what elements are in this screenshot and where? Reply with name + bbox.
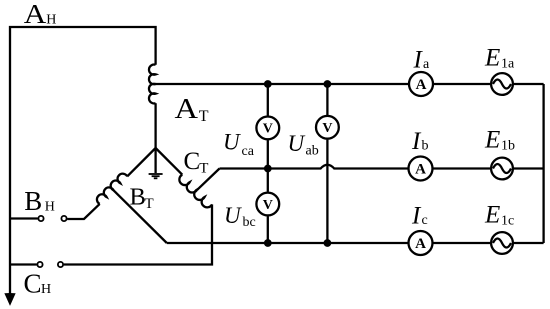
svg-text:I: I xyxy=(411,128,422,155)
junction row c / column 2 xyxy=(324,239,332,247)
wire: row c source to right bus xyxy=(513,242,543,244)
junction row b / column 1 xyxy=(264,165,272,173)
wire: C_H row from left bus to switch xyxy=(10,263,37,265)
svg-text:A: A xyxy=(24,0,47,29)
wire: row b tap slant from C_T coil xyxy=(197,169,219,190)
switch contact circle B_H left xyxy=(38,216,43,221)
node left-bus bottom arrow xyxy=(5,294,15,305)
svg-text:B: B xyxy=(130,183,146,210)
source E_1a circle xyxy=(491,73,513,95)
svg-text:A: A xyxy=(415,162,426,178)
svg-text:U: U xyxy=(223,130,241,155)
svg-text:C: C xyxy=(184,148,201,175)
svg-text:a: a xyxy=(423,57,430,72)
junction row c / column 1 xyxy=(264,239,272,247)
svg-text:H: H xyxy=(41,282,51,297)
voltmeter V (U_ca) xyxy=(256,117,279,140)
switch contact circle C_H right xyxy=(58,262,63,267)
wire: right bus vertical xyxy=(542,84,544,243)
svg-text:H: H xyxy=(46,13,56,28)
junction row a / column 2 xyxy=(324,80,332,88)
source E_1c sine xyxy=(493,239,511,248)
source E_1a sine xyxy=(493,80,511,89)
wire: voltmeter column 2 upper (row a to V U_ab) xyxy=(326,84,328,115)
voltmeter V (U_ab) xyxy=(316,116,339,139)
svg-text:U: U xyxy=(288,131,306,156)
ammeter A (I_a) xyxy=(409,72,433,96)
wire: row b with hop over column 2 xyxy=(220,165,410,169)
svg-text:I: I xyxy=(411,203,422,230)
svg-text:T: T xyxy=(145,196,154,212)
svg-text:ab: ab xyxy=(306,144,319,159)
svg-text:bc: bc xyxy=(243,215,256,230)
ammeter A (I_b) xyxy=(409,157,433,181)
svg-text:c: c xyxy=(422,213,428,228)
wire: column 1 lower (U_bc meter to row c) xyxy=(267,216,269,243)
wire: A_T lower lead to star point xyxy=(154,103,156,148)
svg-text:V: V xyxy=(322,121,332,136)
source E_1b sine xyxy=(493,164,511,173)
wire: column 1 between U_ca meter and U_bc meter xyxy=(267,140,269,192)
svg-text:H: H xyxy=(45,200,55,215)
transformer winding B_T (coil, 4 bumps) xyxy=(97,174,127,204)
wire: row a from A_T tap to ammeter xyxy=(156,83,410,85)
wire: voltmeter column 1 upper (row a to V U_ca) xyxy=(267,84,269,116)
switch contact circle C_H left xyxy=(37,262,42,267)
svg-text:E: E xyxy=(484,127,500,154)
svg-text:b: b xyxy=(422,139,429,154)
svg-text:I: I xyxy=(413,47,424,74)
wire: star point to C_T upper lead xyxy=(156,148,183,175)
svg-text:A: A xyxy=(415,236,426,252)
wire: B_H row from left bus to switch xyxy=(10,217,38,219)
svg-text:E: E xyxy=(484,45,500,72)
svg-text:1b: 1b xyxy=(501,139,515,154)
svg-text:A: A xyxy=(416,77,427,93)
wire: row c horizontal xyxy=(167,242,409,244)
svg-text:1a: 1a xyxy=(501,57,515,72)
ground at star point xyxy=(149,148,163,178)
junction row a / column 1 xyxy=(264,80,272,88)
svg-text:B: B xyxy=(24,186,42,216)
wire: row c ammeter to source xyxy=(433,242,491,244)
svg-text:C: C xyxy=(24,269,42,299)
wire: row a source to right bus xyxy=(513,83,543,85)
svg-text:V: V xyxy=(263,198,273,213)
wire: star point to B_T upper lead xyxy=(127,148,155,176)
switch contact circle B_H right xyxy=(61,216,66,221)
svg-text:T: T xyxy=(199,160,208,176)
svg-text:U: U xyxy=(224,203,242,228)
source E_1b circle xyxy=(491,158,513,180)
wire: row c tap slant from B_T coil xyxy=(113,190,167,243)
transformer winding A_T (coil, 4 bumps) xyxy=(149,65,156,104)
voltmeter V (U_bc) xyxy=(256,193,279,216)
transformer winding C_T (coil, 4 bumps) xyxy=(179,175,212,208)
source E_1c circle xyxy=(491,232,513,254)
svg-text:1c: 1c xyxy=(501,214,514,229)
svg-text:A: A xyxy=(175,94,199,125)
wire: left bus vertical with top A_H wire and A_T top lead xyxy=(10,27,156,296)
wire: column 2 lower (U_ab meter to row c, passes under hop) xyxy=(326,140,328,243)
ammeter A (I_c) xyxy=(409,231,433,255)
wire: row a ammeter to source xyxy=(433,83,490,85)
svg-text:V: V xyxy=(263,122,273,137)
wire: row b source to right bus xyxy=(513,167,543,169)
svg-text:E: E xyxy=(484,202,500,229)
svg-text:T: T xyxy=(199,108,209,125)
svg-text:ca: ca xyxy=(242,144,255,159)
wire: C_T lower lead down and left to switch C_H xyxy=(64,204,212,264)
wire: row b ammeter to source xyxy=(433,167,491,169)
wire: B_T lower lead to switch B_H xyxy=(67,204,100,219)
